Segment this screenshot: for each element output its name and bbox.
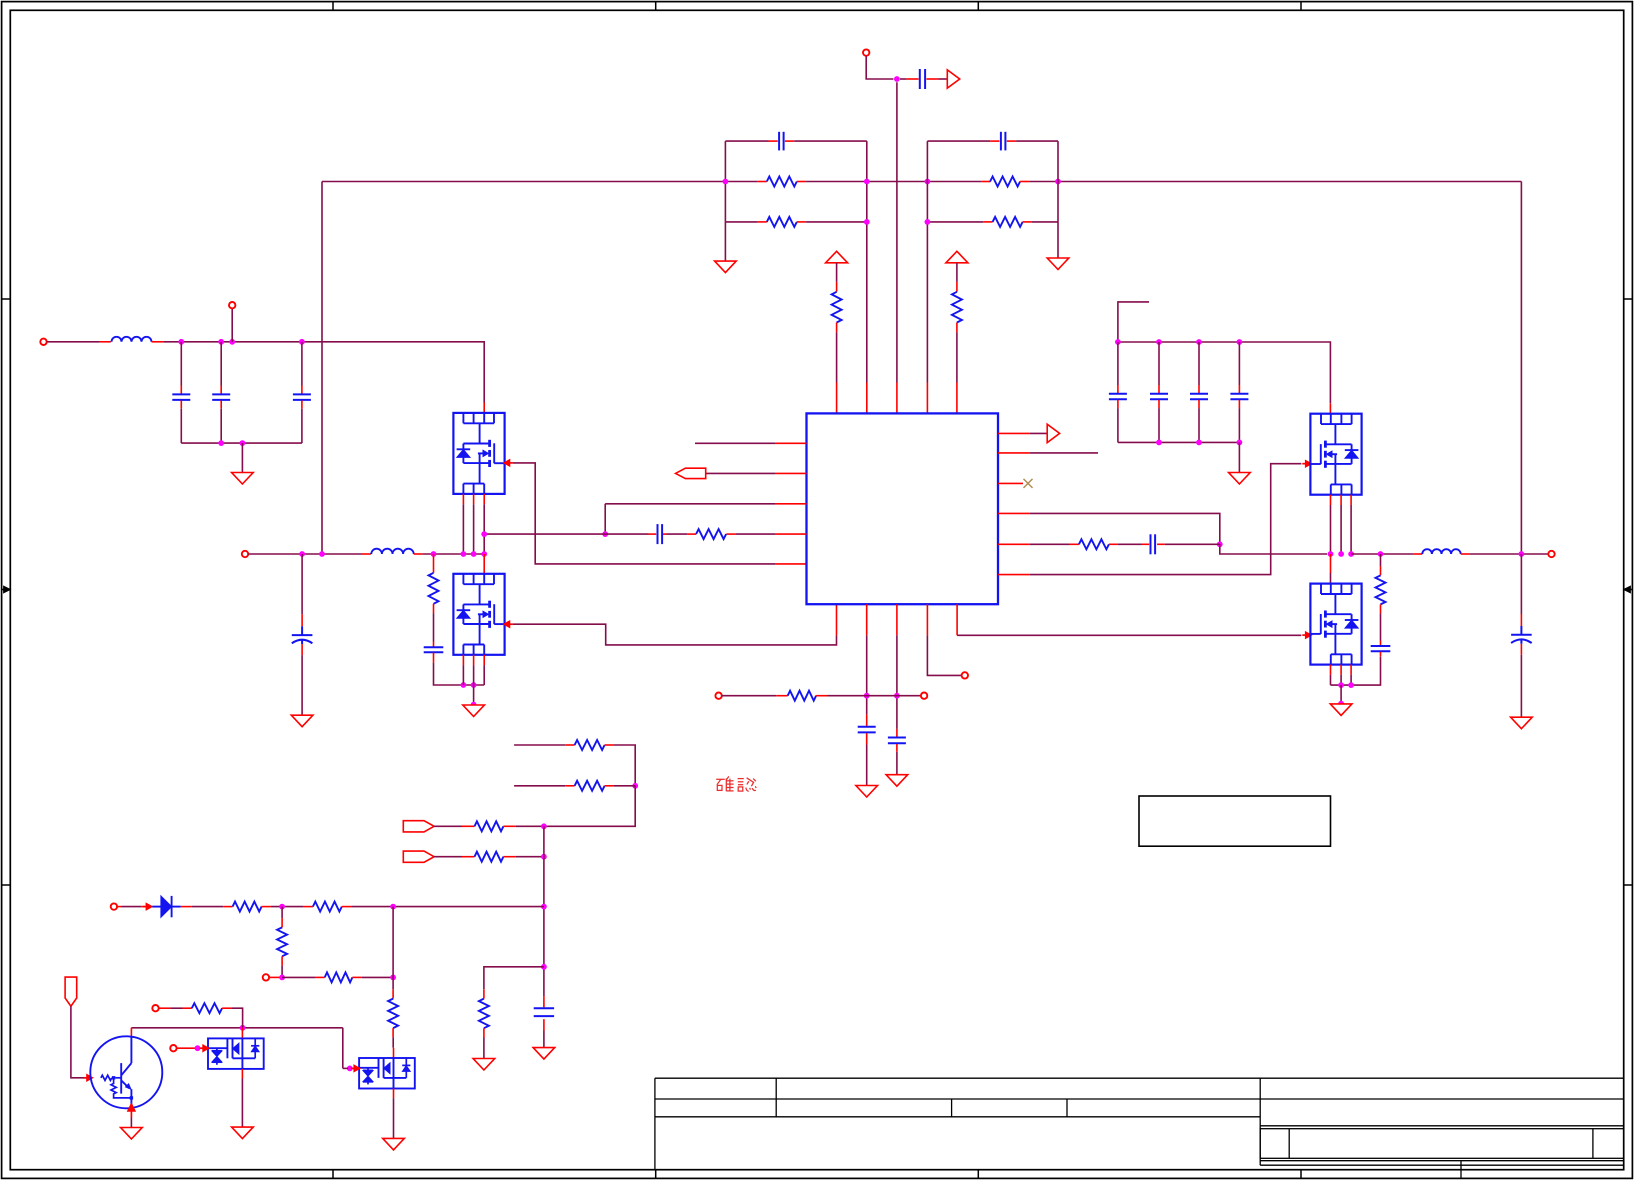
- wire input cap bus: [181, 442, 302, 444]
- res R9 left stub: [1070, 543, 1079, 545]
- ground G7: [1229, 473, 1251, 485]
- diode D1 in stub: [117, 906, 121, 908]
- res R12 right stub: [605, 744, 614, 746]
- capacitor C18: [1230, 393, 1248, 395]
- wire CE1 bottom: [301, 655, 303, 715]
- wire rt b: [828, 695, 921, 697]
- capacitor C13: [858, 726, 876, 728]
- title block divider v1: [775, 1078, 777, 1117]
- cap C1 left stub: [769, 140, 778, 142]
- U1 pin stub right 6: [998, 574, 1030, 576]
- junction at (301.9,341.8): [299, 339, 305, 345]
- cap C15 top stub: [1117, 385, 1119, 393]
- junction at (473.6,685): [471, 682, 477, 688]
- border tick bottom x=1301: [1300, 1170, 1302, 1179]
- wire U1 L1 dead end: [695, 442, 776, 444]
- junction at (543.9,826.3): [541, 823, 547, 829]
- res R1 left stub: [758, 181, 767, 183]
- U1 pin stub left 5: [776, 563, 807, 565]
- inductor L3: [1422, 549, 1460, 554]
- res R16 bot stub: [483, 1028, 485, 1037]
- connector pin VOUT: [1548, 551, 1554, 557]
- R6 bottom stub: [956, 323, 958, 333]
- title block line right b: [1260, 1160, 1624, 1162]
- ground G13: [533, 1048, 555, 1060]
- wire Q1 source to SW x=463.4: [462, 504, 464, 554]
- snub2 C stub: [1380, 641, 1382, 646]
- U1 pin stub top 5: [956, 383, 958, 414]
- wire right block top right: [1016, 140, 1058, 142]
- wire C14 gnd: [896, 752, 898, 775]
- nmos Q4 (lower right): [1310, 584, 1361, 665]
- title block divider v3: [1066, 1099, 1068, 1117]
- D3 left pin arrow: [354, 1065, 360, 1072]
- Q1 gate pin arrow: [504, 460, 510, 467]
- connector pin VIN: [40, 339, 46, 345]
- no-connect X: [1024, 479, 1033, 488]
- junction at (473.6,554): [471, 551, 477, 557]
- wire CE1 top: [301, 554, 303, 614]
- cap CT left stub: [906, 78, 918, 80]
- junction at (433.5,554): [431, 551, 437, 557]
- R5 top stub: [836, 282, 838, 292]
- capacitor C2: [1000, 132, 1002, 151]
- esd diode pack D3: [359, 1058, 415, 1089]
- res R16 top stub: [483, 989, 485, 998]
- ground G3: [232, 473, 254, 485]
- cap C11 left stub: [649, 533, 657, 535]
- wire cap C9 bottom: [301, 409, 303, 443]
- title block main divider: [1259, 1078, 1261, 1165]
- wire U1 B5 to Q4 gate: [957, 634, 1301, 636]
- junction at (221.2,443.1): [218, 440, 224, 446]
- CE1 bot stub: [301, 644, 303, 655]
- wire U1 R5 a: [1030, 543, 1070, 545]
- wire D3 gnd: [393, 1098, 395, 1138]
- capacitor C9: [293, 393, 311, 395]
- wire ctrl row: [131, 1027, 342, 1029]
- ground G12: [232, 1127, 254, 1139]
- junction at (463.4,554): [461, 551, 467, 557]
- wire left block left vert: [724, 141, 726, 222]
- res R2 right stub: [1020, 181, 1029, 183]
- resistor R11: [1376, 575, 1386, 604]
- Q1 source stub x=484.2: [483, 494, 485, 504]
- cap C18 bot stub: [1238, 400, 1240, 408]
- junction at (484.2,554): [481, 551, 487, 557]
- ind L1 left stub: [99, 341, 111, 343]
- connector pin top: [863, 49, 869, 55]
- cap C1 right stub: [785, 140, 794, 142]
- wire snub2 mid: [1380, 613, 1382, 640]
- junction at (605.2,534.1): [602, 531, 608, 537]
- wire U1 R5 c: [1165, 543, 1220, 545]
- junction at (473.6,704.7): [471, 702, 477, 708]
- ilim stub: [269, 976, 282, 978]
- Q1 source stub x=473.6: [473, 494, 475, 504]
- junction at (1159,342): [1156, 339, 1162, 345]
- junction at (896.9,695.7): [894, 693, 900, 699]
- cap C8 top stub: [220, 386, 222, 394]
- res R8 left stub: [687, 533, 696, 535]
- wire cap C15 bottom: [1117, 408, 1119, 442]
- res R18 right stub: [342, 906, 351, 908]
- wire cap C16 top: [1158, 342, 1160, 385]
- wire snub bottom: [434, 663, 485, 685]
- U1 pin stub top 2: [866, 383, 868, 414]
- connector pin SW1: [242, 551, 248, 557]
- junction at (1117.9,342): [1115, 339, 1121, 345]
- junction at (927.4,221.9): [925, 219, 931, 225]
- wire snub mid: [433, 613, 435, 641]
- wire col393 a: [392, 907, 394, 978]
- res R10 right stub: [816, 695, 827, 697]
- wire cap bank bus bottom: [1118, 441, 1240, 443]
- Q3 drain stub: [1329, 403, 1331, 413]
- cap C15 bot stub: [1117, 400, 1119, 408]
- cap C9 top stub: [301, 386, 303, 394]
- wire PA2 to R6: [956, 263, 958, 282]
- ind L3 right stub: [1461, 553, 1470, 555]
- junction at (1159,442.4): [1156, 440, 1162, 446]
- cap C9 bot stub: [301, 401, 303, 409]
- ground G4: [291, 715, 313, 727]
- resistor R4: [993, 217, 1023, 227]
- wire cap C8 bottom: [220, 409, 222, 443]
- U1 pin stub left 2: [776, 472, 807, 474]
- wire col393 b: [392, 977, 394, 989]
- power arrow PA1: [826, 251, 848, 262]
- snub2 R stub: [1380, 566, 1382, 575]
- junction at (484.2,534.1): [481, 531, 487, 537]
- Q4 source stub x=1351.1: [1350, 665, 1352, 675]
- wire cap C15 top: [1117, 342, 1119, 385]
- capacitor C7: [172, 393, 190, 395]
- wire brow2 b: [614, 785, 635, 787]
- U1 pin stub top 3: [896, 383, 898, 414]
- input port P1: [403, 821, 434, 832]
- cap C18 top stub: [1238, 385, 1240, 393]
- wire C13 gnd: [866, 745, 868, 786]
- ground G11: [121, 1128, 143, 1140]
- resistor R16: [479, 999, 489, 1029]
- res R14 right stub: [503, 825, 516, 827]
- junction at (635.2,785.8): [632, 783, 638, 789]
- ground G2: [1047, 258, 1069, 270]
- wire U1 R1 to port: [1030, 432, 1047, 434]
- cap C20 top stub: [543, 996, 545, 1007]
- wire U1 R6 to Q3 gate: [1030, 464, 1302, 575]
- wire Q2 source to bus x=473.6: [473, 665, 475, 685]
- U1 pin stub bottom 3: [896, 604, 898, 635]
- wire CE2 top: [1520, 554, 1522, 614]
- ground G8: [1511, 717, 1533, 729]
- border tick right y=299: [1624, 298, 1633, 300]
- wire cap C18 bottom: [1238, 408, 1240, 442]
- ground G1: [715, 261, 737, 273]
- ground G6: [1330, 704, 1352, 716]
- border tick right y=885: [1624, 884, 1633, 886]
- title block line right c: [1260, 1164, 1624, 1166]
- inductor L2: [371, 549, 413, 554]
- wire R16 gnd: [483, 1038, 485, 1059]
- wire d1 b: [271, 906, 304, 908]
- resistor R5: [832, 292, 842, 323]
- snub R stub: [433, 554, 435, 573]
- connector pin aux: [229, 302, 235, 308]
- ind L3 left stub: [1413, 553, 1422, 555]
- junction at (463.4,685): [461, 682, 467, 688]
- res R14 left stub: [462, 825, 475, 827]
- junction at (232.2,341.8): [229, 339, 235, 345]
- cap C12 right stub: [1157, 543, 1165, 545]
- junction at (866.8,181.5): [864, 179, 870, 185]
- junction at (1351.1,685.1): [1348, 682, 1354, 688]
- wire p1 b: [516, 825, 544, 827]
- junction at (1380.5,554): [1378, 551, 1384, 557]
- U1 pin stub left 4: [776, 533, 807, 535]
- D2 left red: [177, 1047, 199, 1049]
- wire cap C8 top: [220, 342, 222, 386]
- res R10 left stub: [776, 695, 787, 697]
- output port arrow top: [947, 70, 959, 88]
- Q3 gate pin arrow: [1305, 460, 1311, 467]
- IC U1: [807, 413, 999, 604]
- wire cap C17 bottom: [1198, 408, 1200, 442]
- wire vin to pin up: [231, 308, 233, 341]
- cap C12 left stub: [1142, 543, 1150, 545]
- resistor R12: [575, 740, 605, 750]
- wire cap C7 top: [180, 342, 182, 386]
- wire Q4 source to bus x=1330.5: [1330, 675, 1332, 685]
- wire right block left vert: [926, 141, 928, 382]
- border tick left y=299: [2, 298, 11, 300]
- Q4 source stub x=1341.1: [1340, 665, 1342, 675]
- ground G14: [473, 1059, 495, 1071]
- junction at (282.1,906.6): [279, 904, 285, 910]
- wire Q5 emitter gnd: [130, 1118, 132, 1128]
- junction at (393.1,977.4): [390, 975, 396, 981]
- title block line right a: [1260, 1125, 1624, 1127]
- wire input gnd stem: [241, 443, 243, 472]
- title block line3 left: [655, 1116, 1260, 1118]
- wire pgnd2 stem: [1340, 685, 1342, 704]
- wire U1 L3 down: [604, 504, 606, 534]
- U1 pin stub bottom 5: [956, 604, 958, 635]
- title block revision divider 2: [1592, 1129, 1594, 1159]
- U1 pin stub bottom 2: [866, 604, 868, 635]
- wire ilim b: [362, 976, 393, 978]
- junction at (393.1,906.6): [390, 904, 396, 910]
- wire row181 left down: [321, 182, 323, 555]
- D3 top pin stub: [393, 1048, 395, 1058]
- ground G10: [886, 775, 908, 787]
- output port arrow PGOOD: [1047, 424, 1059, 442]
- U1 pin stub right 1: [998, 432, 1030, 434]
- wire rt a: [722, 695, 776, 697]
- resistor R13: [575, 781, 605, 791]
- resistor R22: [192, 1003, 222, 1013]
- resistor R6: [952, 292, 962, 323]
- diode D1: [152, 906, 161, 908]
- capacitor CE2 (polarized): [1511, 634, 1532, 636]
- wire R19 bot: [281, 966, 283, 978]
- Q3 source stub x=1330.5: [1330, 495, 1332, 505]
- border centering arrow right: [1629, 589, 1633, 591]
- wire Q4 drain b: [1330, 573, 1332, 584]
- res R4 stub l: [983, 221, 992, 223]
- CE2 bot stub: [1520, 644, 1522, 655]
- Q2 drain stub: [483, 554, 485, 574]
- wire left block top right: [794, 140, 867, 142]
- Q3 source stub x=1351.1: [1350, 495, 1352, 505]
- cap C14 bot stub: [896, 744, 898, 752]
- transistor Q5 (BRT): [90, 1036, 162, 1108]
- connector pin MODE: [962, 672, 968, 678]
- junction at (349.8,1068.4): [347, 1066, 353, 1072]
- wire cap C16 bottom: [1158, 408, 1160, 442]
- cap C13 top stub: [866, 715, 868, 726]
- wire right block right vert: [1057, 141, 1059, 222]
- U1 pin stub bottom 4: [926, 604, 928, 635]
- wire d1 c: [351, 906, 544, 908]
- power arrow PA2: [946, 251, 968, 262]
- res R19 bot stub: [281, 956, 283, 965]
- wire Q1 gate: [513, 463, 776, 564]
- junction at (725.4,181.5): [723, 179, 729, 185]
- wire row222 right a: [927, 221, 983, 223]
- wire pgnd stem: [473, 685, 475, 705]
- resistor R7: [429, 573, 439, 604]
- ground G15: [383, 1138, 405, 1150]
- title block revision divider 1: [1288, 1129, 1290, 1159]
- res R9 right stub: [1109, 543, 1118, 545]
- cap C2 left stub: [990, 140, 999, 142]
- capacitor C16: [1150, 393, 1168, 395]
- U1 pin stub right 5: [998, 543, 1030, 545]
- wire U1 B4 to pin: [927, 635, 961, 675]
- wire Q4 source to bus x=1351.1: [1350, 675, 1352, 685]
- cap C17 bot stub: [1198, 400, 1200, 408]
- wire cap C9 top: [301, 342, 303, 386]
- title block line2: [655, 1098, 1624, 1100]
- junction at (1351.1,554): [1348, 551, 1354, 557]
- res R15 left stub: [462, 856, 475, 858]
- wire D3 left link: [343, 1067, 348, 1069]
- resistor R17: [233, 902, 262, 912]
- wire brow1 a: [514, 744, 565, 746]
- Q1 source stub x=463.4: [462, 494, 464, 504]
- junction at (1219.8,544.3): [1217, 541, 1223, 547]
- resistor R3: [767, 217, 797, 227]
- res R22 left stub: [183, 1007, 192, 1009]
- wire row181 c: [1029, 181, 1521, 183]
- wire d1 a: [192, 906, 224, 908]
- wire U1 B2 down: [866, 635, 868, 714]
- border tick top x=1301: [1300, 2, 1302, 11]
- junction at (1330.5,554): [1328, 551, 1334, 557]
- wire U1 L2 to port: [706, 472, 776, 474]
- wire row181 b: [806, 181, 981, 183]
- wire D3 up link: [342, 1028, 344, 1069]
- cap CT right stub: [926, 78, 938, 80]
- wire p1 a: [434, 825, 462, 827]
- nmos Q3 (upper right): [1310, 414, 1361, 495]
- wire row222 left a: [725, 221, 757, 223]
- wire Q3 source to SW2 x=1341.1: [1340, 505, 1342, 554]
- cap C2 right stub: [1007, 140, 1016, 142]
- capacitor C1: [778, 132, 780, 151]
- junction at (282.1,977.4): [279, 975, 285, 981]
- ind L2 left stub: [362, 553, 371, 555]
- D3 bottom pin stub: [393, 1089, 395, 1099]
- cap C20 bot stub: [543, 1019, 545, 1030]
- res R17 right stub: [262, 906, 271, 908]
- wire right block top left: [927, 140, 990, 142]
- connector pin SDA: [170, 1045, 176, 1051]
- res R13 left stub: [565, 785, 574, 787]
- border tick top x=333: [332, 2, 334, 11]
- connector pin CTRL: [152, 1005, 158, 1011]
- title block divider v2: [951, 1099, 953, 1117]
- wire row222 left b: [806, 221, 867, 223]
- capacitor C14: [888, 737, 906, 739]
- Q1 drain stub: [483, 403, 485, 413]
- wire CE2 bottom: [1520, 655, 1522, 717]
- wire row181 a: [322, 181, 758, 183]
- capacitor C15: [1109, 393, 1127, 395]
- junction at (1239.4,442.4): [1237, 440, 1243, 446]
- wire ilim a: [282, 976, 315, 978]
- border tick left y=885: [2, 884, 11, 886]
- wire bcol down: [544, 786, 635, 827]
- wire vin a: [47, 341, 99, 343]
- res R12 left stub: [565, 744, 574, 746]
- junction at (1199,342): [1196, 339, 1202, 345]
- wire left block gnd stem: [724, 222, 726, 261]
- wire Q1 source to SW x=484.2: [483, 504, 485, 554]
- cap C13 bot stub: [866, 733, 868, 744]
- junction at (1341.1,554): [1338, 551, 1344, 557]
- Q4 source stub x=1330.5: [1330, 665, 1332, 675]
- wire U1 L4 b: [667, 533, 688, 535]
- wire vbat to D1: [122, 906, 142, 908]
- resistor R15: [475, 852, 504, 862]
- Q5 collector stub: [130, 1028, 132, 1037]
- R6 top stub: [956, 282, 958, 292]
- wire snub2 top: [1380, 554, 1382, 566]
- res R8 right stub: [726, 533, 735, 535]
- wire fb to SW2 bus: [1220, 544, 1327, 554]
- U1 pin stub right 4: [998, 512, 1030, 514]
- junction at (1058,181.5): [1055, 179, 1061, 185]
- wire bcol down2: [543, 826, 545, 996]
- resistor R1: [767, 177, 797, 187]
- input port EN: [676, 468, 706, 478]
- cap C8 bot stub: [220, 401, 222, 409]
- junction at (543.9,906.6): [541, 904, 547, 910]
- wire sw1 b: [423, 553, 485, 555]
- junction at (197.5,1048.2): [195, 1045, 201, 1051]
- wire Q2 source to bus x=463.4: [462, 665, 464, 685]
- wire row181 right down: [1520, 182, 1522, 555]
- wire cap bank stub: [1118, 302, 1149, 342]
- junction at (1521.4,554): [1519, 551, 1525, 557]
- capacitor C11: [657, 524, 659, 544]
- res R3 stubs l: [758, 221, 767, 223]
- capacitor C10: [424, 646, 444, 648]
- wire Q3 source to SW2 x=1351.1: [1350, 505, 1352, 554]
